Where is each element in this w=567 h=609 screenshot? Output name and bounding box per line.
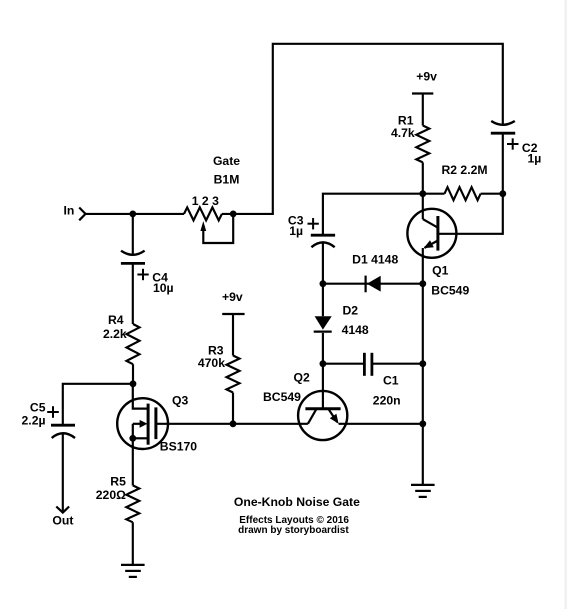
- page edge strip: [564, 0, 567, 609]
- svg-text:1 2 3: 1 2 3: [192, 194, 219, 208]
- wire junction to C3: [323, 194, 423, 236]
- resistor R1 body: [416, 126, 429, 163]
- junction R1/R2/C3/Q1: [419, 190, 426, 197]
- diode D2 cathode bar: [314, 331, 332, 333]
- resistor R3 body: [227, 356, 240, 393]
- transistor Q2 circle: [298, 391, 347, 440]
- transistor Q3 drain path: [133, 384, 148, 409]
- wire input to pot: [86, 213, 185, 215]
- wire C1 right: [372, 363, 423, 365]
- wire input junction to C4: [132, 214, 134, 255]
- wire C3 to D1 junction: [322, 243, 324, 284]
- svg-text:4.7k: 4.7k: [391, 126, 415, 140]
- svg-text:+9v: +9v: [416, 70, 437, 84]
- capacitor C3 plus sign: [308, 218, 319, 229]
- wire R4 to junction: [132, 364, 134, 384]
- capacitor C2 plus sign: [507, 138, 519, 149]
- transistor Q3 body line: [133, 423, 141, 425]
- transistor Q3 channel bar: [147, 404, 150, 445]
- transistor Q2 emitter: [328, 409, 337, 422]
- transistor Q3 circle: [117, 398, 168, 449]
- wire D1 junction to D2: [322, 284, 324, 317]
- transistor Q3 source dot: [129, 435, 136, 442]
- svg-text:220Ω: 220Ω: [96, 488, 126, 502]
- resistor R5 body: [126, 485, 139, 522]
- svg-text:1µ: 1µ: [289, 224, 303, 238]
- capacitor C3 straight plate: [311, 234, 335, 237]
- capacitor C5 straight plate: [51, 424, 75, 427]
- transistor Q1 base bar: [436, 216, 439, 251]
- wire R5 to ground: [132, 522, 134, 565]
- capacitor C2 curved plate: [491, 121, 515, 125]
- transistor Q3 body arrow: [140, 420, 148, 428]
- svg-text:Q2: Q2: [294, 371, 310, 385]
- capacitor C4 plus sign: [137, 269, 148, 280]
- transistor Q1 circle: [407, 209, 456, 258]
- wire Q1 emitter down: [422, 248, 424, 284]
- svg-text:2.2k: 2.2k: [103, 327, 127, 341]
- wire R2 to C2 junction: [481, 193, 503, 195]
- junction R3/gate wire: [230, 420, 237, 427]
- capacitor C4 straight plate: [121, 262, 145, 265]
- wire top rail pot to C2: [222, 44, 503, 214]
- wire C1 junction to Q2 base: [322, 364, 324, 409]
- power +9v (right) bar: [412, 92, 433, 94]
- svg-text:C1: C1: [383, 374, 399, 388]
- diode D1 triangle: [367, 276, 381, 292]
- transistor Q1 emitter arrow: [424, 240, 434, 248]
- junction ground rail: [419, 420, 426, 427]
- resistor R4 body: [127, 324, 140, 364]
- capacitor C5 plus sign: [47, 406, 59, 418]
- capacitor C2 straight plate: [491, 132, 515, 135]
- wire C1 left: [323, 363, 365, 365]
- wire C5 to Out: [62, 433, 64, 512]
- svg-text:One-Knob Noise Gate: One-Knob Noise Gate: [234, 495, 360, 509]
- junction C3/D1/D2: [320, 280, 327, 287]
- junction Q1 emitter/D1: [419, 280, 426, 287]
- wire +9v to R3: [232, 314, 234, 356]
- wire junction to C5: [63, 384, 133, 425]
- diode D1 cathode bar: [365, 276, 367, 293]
- transistor Q1 emitter: [425, 241, 438, 248]
- svg-text:R2 2.2M: R2 2.2M: [441, 163, 487, 177]
- potentiometer B1M body: [184, 207, 222, 220]
- input arrow: [79, 208, 85, 221]
- capacitor C3 curved plate: [311, 242, 334, 247]
- resistor R2 body: [445, 187, 481, 200]
- svg-text:drawn by storyboardist: drawn by storyboardist: [238, 525, 349, 536]
- svg-text:1µ: 1µ: [528, 151, 542, 165]
- wire +9v to R1: [422, 94, 424, 126]
- wire C1 junction down: [422, 364, 424, 424]
- transistor Q2 collector: [308, 409, 317, 424]
- svg-text:B1M: B1M: [214, 173, 240, 187]
- svg-text:4148: 4148: [342, 323, 369, 337]
- wire junction to Q1 base: [422, 194, 424, 219]
- junction C1 right: [419, 360, 426, 367]
- svg-text:BS170: BS170: [160, 439, 197, 453]
- wire D2 to C1 junction: [322, 333, 324, 364]
- capacitor C1 plates: [364, 353, 372, 376]
- transistor Q3 gate bar: [154, 407, 157, 439]
- wire wiper loop to terminal 3: [203, 214, 233, 243]
- wire D1 row: [323, 283, 423, 285]
- node Out arrow: [56, 507, 69, 513]
- junction input/C4: [129, 211, 136, 218]
- wire to ground (right): [422, 424, 424, 485]
- wire R1 to junction: [422, 162, 424, 193]
- capacitor C4 curved plate: [121, 251, 145, 255]
- wire R3 to gate wire: [232, 393, 234, 424]
- svg-text:In: In: [64, 204, 75, 218]
- potentiometer wiper arrow: [200, 221, 206, 231]
- wire right rail to Q1 collector: [502, 194, 504, 235]
- wire junction to R2: [423, 193, 445, 195]
- junction D2/C1/Q2: [320, 360, 327, 367]
- svg-text:470k: 470k: [198, 356, 225, 370]
- svg-text:Q1: Q1: [432, 263, 448, 277]
- wire Q3 source to R5: [132, 438, 134, 485]
- svg-text:BC549: BC549: [263, 390, 301, 404]
- transistor Q1 base diagonal: [423, 219, 438, 228]
- svg-text:Gate: Gate: [213, 154, 240, 168]
- svg-text:2.2µ: 2.2µ: [22, 413, 46, 427]
- transistor Q3 source line: [133, 437, 148, 439]
- wire Q3 gate to Q2 collector: [156, 423, 308, 425]
- transistor Q2 emitter arrow: [330, 414, 339, 424]
- wire C2 to R2 junction: [502, 133, 504, 194]
- svg-text:BC549: BC549: [431, 284, 469, 298]
- junction C2/R2: [499, 190, 506, 197]
- capacitor C5 curved plate: [52, 433, 75, 438]
- transistor Q3 source-body vertical: [132, 424, 134, 439]
- diode D2 triangle: [315, 316, 332, 329]
- svg-text:D2: D2: [343, 304, 359, 318]
- svg-text:D1 4148: D1 4148: [352, 253, 398, 267]
- svg-text:R4: R4: [108, 313, 124, 327]
- wire Q1 emitter rail to C1: [422, 284, 424, 364]
- ground (right): [411, 485, 435, 497]
- transistor Q2 base bar: [305, 407, 340, 410]
- svg-text:10µ: 10µ: [153, 281, 174, 295]
- power +9v (left) bar: [222, 313, 244, 315]
- svg-text:R5: R5: [110, 475, 126, 489]
- svg-text:+9v: +9v: [222, 290, 243, 304]
- svg-text:220n: 220n: [373, 394, 401, 408]
- wire Q2 emitter to ground junction: [339, 423, 423, 425]
- transistor Q1 collector: [438, 233, 503, 235]
- wire C4 to R4: [132, 263, 134, 324]
- junction pot terminal 3: [230, 211, 237, 218]
- ground (left): [121, 565, 145, 577]
- svg-text:Out: Out: [52, 513, 73, 527]
- svg-text:Q3: Q3: [172, 393, 188, 407]
- junction R4/C5/Q3: [130, 380, 137, 387]
